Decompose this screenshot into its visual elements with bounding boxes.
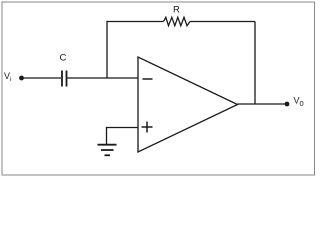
op-amp U1 (triangle) bbox=[138, 57, 238, 152]
wire resistor to feedback right vertical bbox=[190, 21, 255, 23]
ground bbox=[98, 145, 117, 156]
op-amp non-inverting input (plus) bbox=[142, 122, 153, 133]
svg-text:C: C bbox=[60, 53, 67, 64]
node Vi (input dot) bbox=[19, 76, 24, 81]
border frame bbox=[2, 2, 315, 175]
wire op-amp output to node V0 bbox=[238, 103, 288, 105]
resistor R (zigzag) bbox=[164, 17, 191, 25]
wire capacitor to op-amp inverting input bbox=[68, 77, 139, 79]
wire non-inverting input to ground corner bbox=[107, 128, 139, 145]
capacitor C bbox=[62, 71, 67, 87]
op-amp inverting input (minus) bbox=[143, 78, 153, 80]
wire feedback left vertical (node junction at x=107) bbox=[106, 21, 108, 78]
svg-text:R: R bbox=[173, 5, 180, 16]
wire feedback right vertical down to output bbox=[254, 22, 256, 105]
node V0 (output dot) bbox=[285, 102, 290, 107]
wire top left to resistor bbox=[106, 21, 163, 23]
wire input dot to capacitor bbox=[22, 77, 62, 79]
